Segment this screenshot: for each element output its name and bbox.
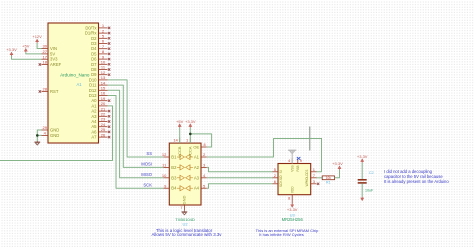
wire to C1 [361,163,363,180]
svg-text:12: 12 [162,152,167,157]
svg-text:10k: 10k [326,176,332,180]
pin 12 D9 [99,74,108,76]
pin 9 B4 [163,187,169,189]
wire MISO to SO [207,177,273,179]
pin 8 VDD [291,195,293,204]
svg-text:MISO: MISO [141,172,152,177]
svg-text:U2: U2 [182,221,188,226]
pin 9 D6 [99,58,108,60]
svg-text:10uF: 10uF [365,189,374,193]
TXB0104 U2 [169,143,201,205]
buffer glyph [177,165,193,170]
pin 13 D10 [99,79,108,81]
svg-text:VIN: VIN [50,46,57,51]
pin 2 D1/Rx [99,32,108,34]
pin 28 RST [42,91,49,93]
svg-text:A1: A1 [76,82,82,87]
wire R1 to +3.3V [335,170,340,178]
+5V power above U2 [179,125,181,128]
svg-text:A1: A1 [194,155,200,160]
pin 1 VCCA [189,138,191,144]
svg-text:It is already present on the A: It is already present on the Arduino [384,179,449,184]
svg-text:5V: 5V [50,51,55,56]
svg-text:SCK: SCK [279,180,283,187]
svg-text:RST: RST [50,89,59,94]
svg-text:17: 17 [43,54,48,59]
svg-text:26: 26 [101,132,106,137]
svg-text:+3.3V: +3.3V [185,119,196,124]
pin 3 WP [311,183,317,185]
junction [189,133,192,136]
pin 5 D2 [99,37,108,39]
Arduino A1 [48,23,99,143]
pin 7 D4 [99,48,108,50]
buffer glyph [177,175,193,180]
wire A1 to left edge [0,106,113,161]
pin 27 5V [42,53,49,55]
+12V power [36,40,38,43]
svg-text:Arduino_Nano: Arduino_Nano [60,73,90,78]
svg-text:SI: SI [279,170,283,173]
svg-text:B3: B3 [171,175,177,180]
pin 18 AREF [42,64,49,66]
wire D10 SS [108,80,164,157]
pin 5 SI [273,171,279,173]
svg-text:GND: GND [182,195,187,204]
svg-text:1: 1 [186,139,188,143]
wire MOSI to SI [207,167,273,171]
buffer glyph [177,186,193,191]
svg-text:C2: C2 [369,171,374,175]
resistor R1 [322,176,334,180]
pin 4 GND [42,134,49,136]
svg-text:14: 14 [173,139,177,143]
svg-text:28: 28 [43,87,48,92]
junction [36,134,39,137]
+3.3V power above U2 [189,125,191,128]
svg-text:GND: GND [50,133,59,138]
pin 3 A2 [201,166,207,168]
svg-text:A7: A7 [91,135,97,140]
buffer glyph [177,154,193,159]
svg-text:3V3: 3V3 [50,57,58,62]
svg-text:29: 29 [43,125,48,130]
svg-text:4: 4 [288,159,290,163]
svg-text:MR25H256: MR25H256 [282,217,304,222]
svg-text:HOLD: HOLD [305,173,309,183]
svg-text:VCCB: VCCB [177,146,182,157]
wire +12V to VIN [37,43,41,49]
svg-text:R1: R1 [326,181,331,185]
pin 9 FAB no-connect [297,158,299,163]
pin 4 VSS [291,158,293,163]
wire +5V to 5V pin [26,52,42,54]
pin 7 HOLD [311,177,317,179]
+3.3V power [11,53,13,56]
pin 24 A5 [99,126,108,128]
pin 8 OE [201,146,207,148]
ground arduino [36,141,38,142]
svg-text:Allows 5V to communicate with: Allows 5V to communicate with 3.3v [151,232,222,237]
wire SCK to SCK [207,184,273,188]
svg-text:8: 8 [288,197,290,201]
svg-text:8: 8 [204,143,206,147]
pin 6 SCK [273,183,279,185]
svg-text:7: 7 [180,206,182,210]
pin 14 VCCB [179,138,181,144]
pin 8 D5 [99,53,108,55]
svg-text:B4: B4 [171,186,177,191]
pin 11 B2 [163,166,169,168]
pin 2 SO [273,177,279,179]
wire C1 down [361,183,363,196]
pin 16 D13 [99,95,108,97]
svg-text:A3: A3 [194,175,200,180]
svg-text:A4: A4 [194,186,200,191]
pin 21 A2 [99,110,108,112]
svg-text:FAB: FAB [296,165,300,171]
pin 26 A7 [99,136,108,138]
pin 25 A6 [99,131,108,133]
svg-text:+3.3V: +3.3V [6,47,17,52]
pin 10 B3 [163,177,169,179]
svg-text:+5V: +5V [22,43,30,48]
pin 11 D8 [99,69,108,71]
svg-text:B2: B2 [171,165,177,170]
capacitor C1 [358,179,367,181]
pin 6 D3 [99,43,108,45]
svg-text:OE: OE [193,145,199,150]
pin 20 A1 [99,105,108,107]
pin 22 A3 [99,115,108,117]
svg-text:30: 30 [43,44,48,49]
svg-text:SO: SO [279,175,283,180]
svg-text:VSS: VSS [290,165,294,171]
pin 2 A1 [201,156,207,158]
pin 15 D12 [99,89,108,91]
ground U2 [183,211,185,212]
wire D12 MISO [108,90,164,178]
svg-text:GND: GND [50,128,59,133]
wire SS to CS [207,139,322,172]
svg-text:VCCA: VCCA [188,146,193,157]
pin 4 A3 [201,177,207,179]
pin 12 B1 [163,156,169,158]
svg-text:SS: SS [146,151,152,156]
+3.3V power at R1 [339,167,341,170]
svg-text:10: 10 [162,173,167,178]
pin 14 D11 [99,84,108,86]
pin 7 GND [183,205,185,211]
ground arrow below C1 [361,197,363,200]
svg-text:18: 18 [43,60,48,65]
wire +3.3V to 3V3 pin [12,56,42,59]
MR25H256 U3 [278,164,311,195]
svg-text:27: 27 [43,49,48,54]
wire D13 SCK [108,96,164,189]
pin 5 A4 [201,187,207,189]
svg-text:WP: WP [305,181,309,186]
svg-text:It has infinite R/W Cycles: It has infinite R/W Cycles [259,232,303,237]
pin 17 3V3 [42,58,49,60]
+5V power [25,50,27,53]
svg-text:+3.3V: +3.3V [332,161,343,166]
pin 30 VIN [42,48,49,50]
svg-text:SCK: SCK [143,182,152,187]
wire GND pins to ground [37,130,41,141]
pin 10 D7 [99,63,108,65]
pin 1 D0/Tx [99,27,108,29]
svg-text:CS: CS [305,170,309,174]
svg-text:AREF: AREF [50,62,62,67]
svg-text:MOSI: MOSI [141,162,152,167]
pin 19 A0 [99,100,108,102]
svg-text:A2: A2 [194,165,200,170]
wire +5V to VCCB [179,128,181,143]
wire D11 MOSI [108,85,164,167]
+3.3V power below U3 (down) [291,204,293,207]
svg-text:+5V: +5V [176,119,184,124]
wire +3.3V to VCCA and OE [189,128,191,143]
svg-text:VDD: VDD [290,186,294,193]
pin 23 A4 [99,121,108,123]
pin 1 CS [311,171,317,173]
wire HOLD to R1 [317,177,323,179]
svg-text:+12V: +12V [32,34,42,39]
+3.3V power at C1 [361,160,363,163]
svg-text:+3.3V: +3.3V [357,154,368,159]
pin 29 GND [42,129,49,131]
crosshair cursor [309,127,311,151]
ground above U3 (flipped) [291,150,293,163]
